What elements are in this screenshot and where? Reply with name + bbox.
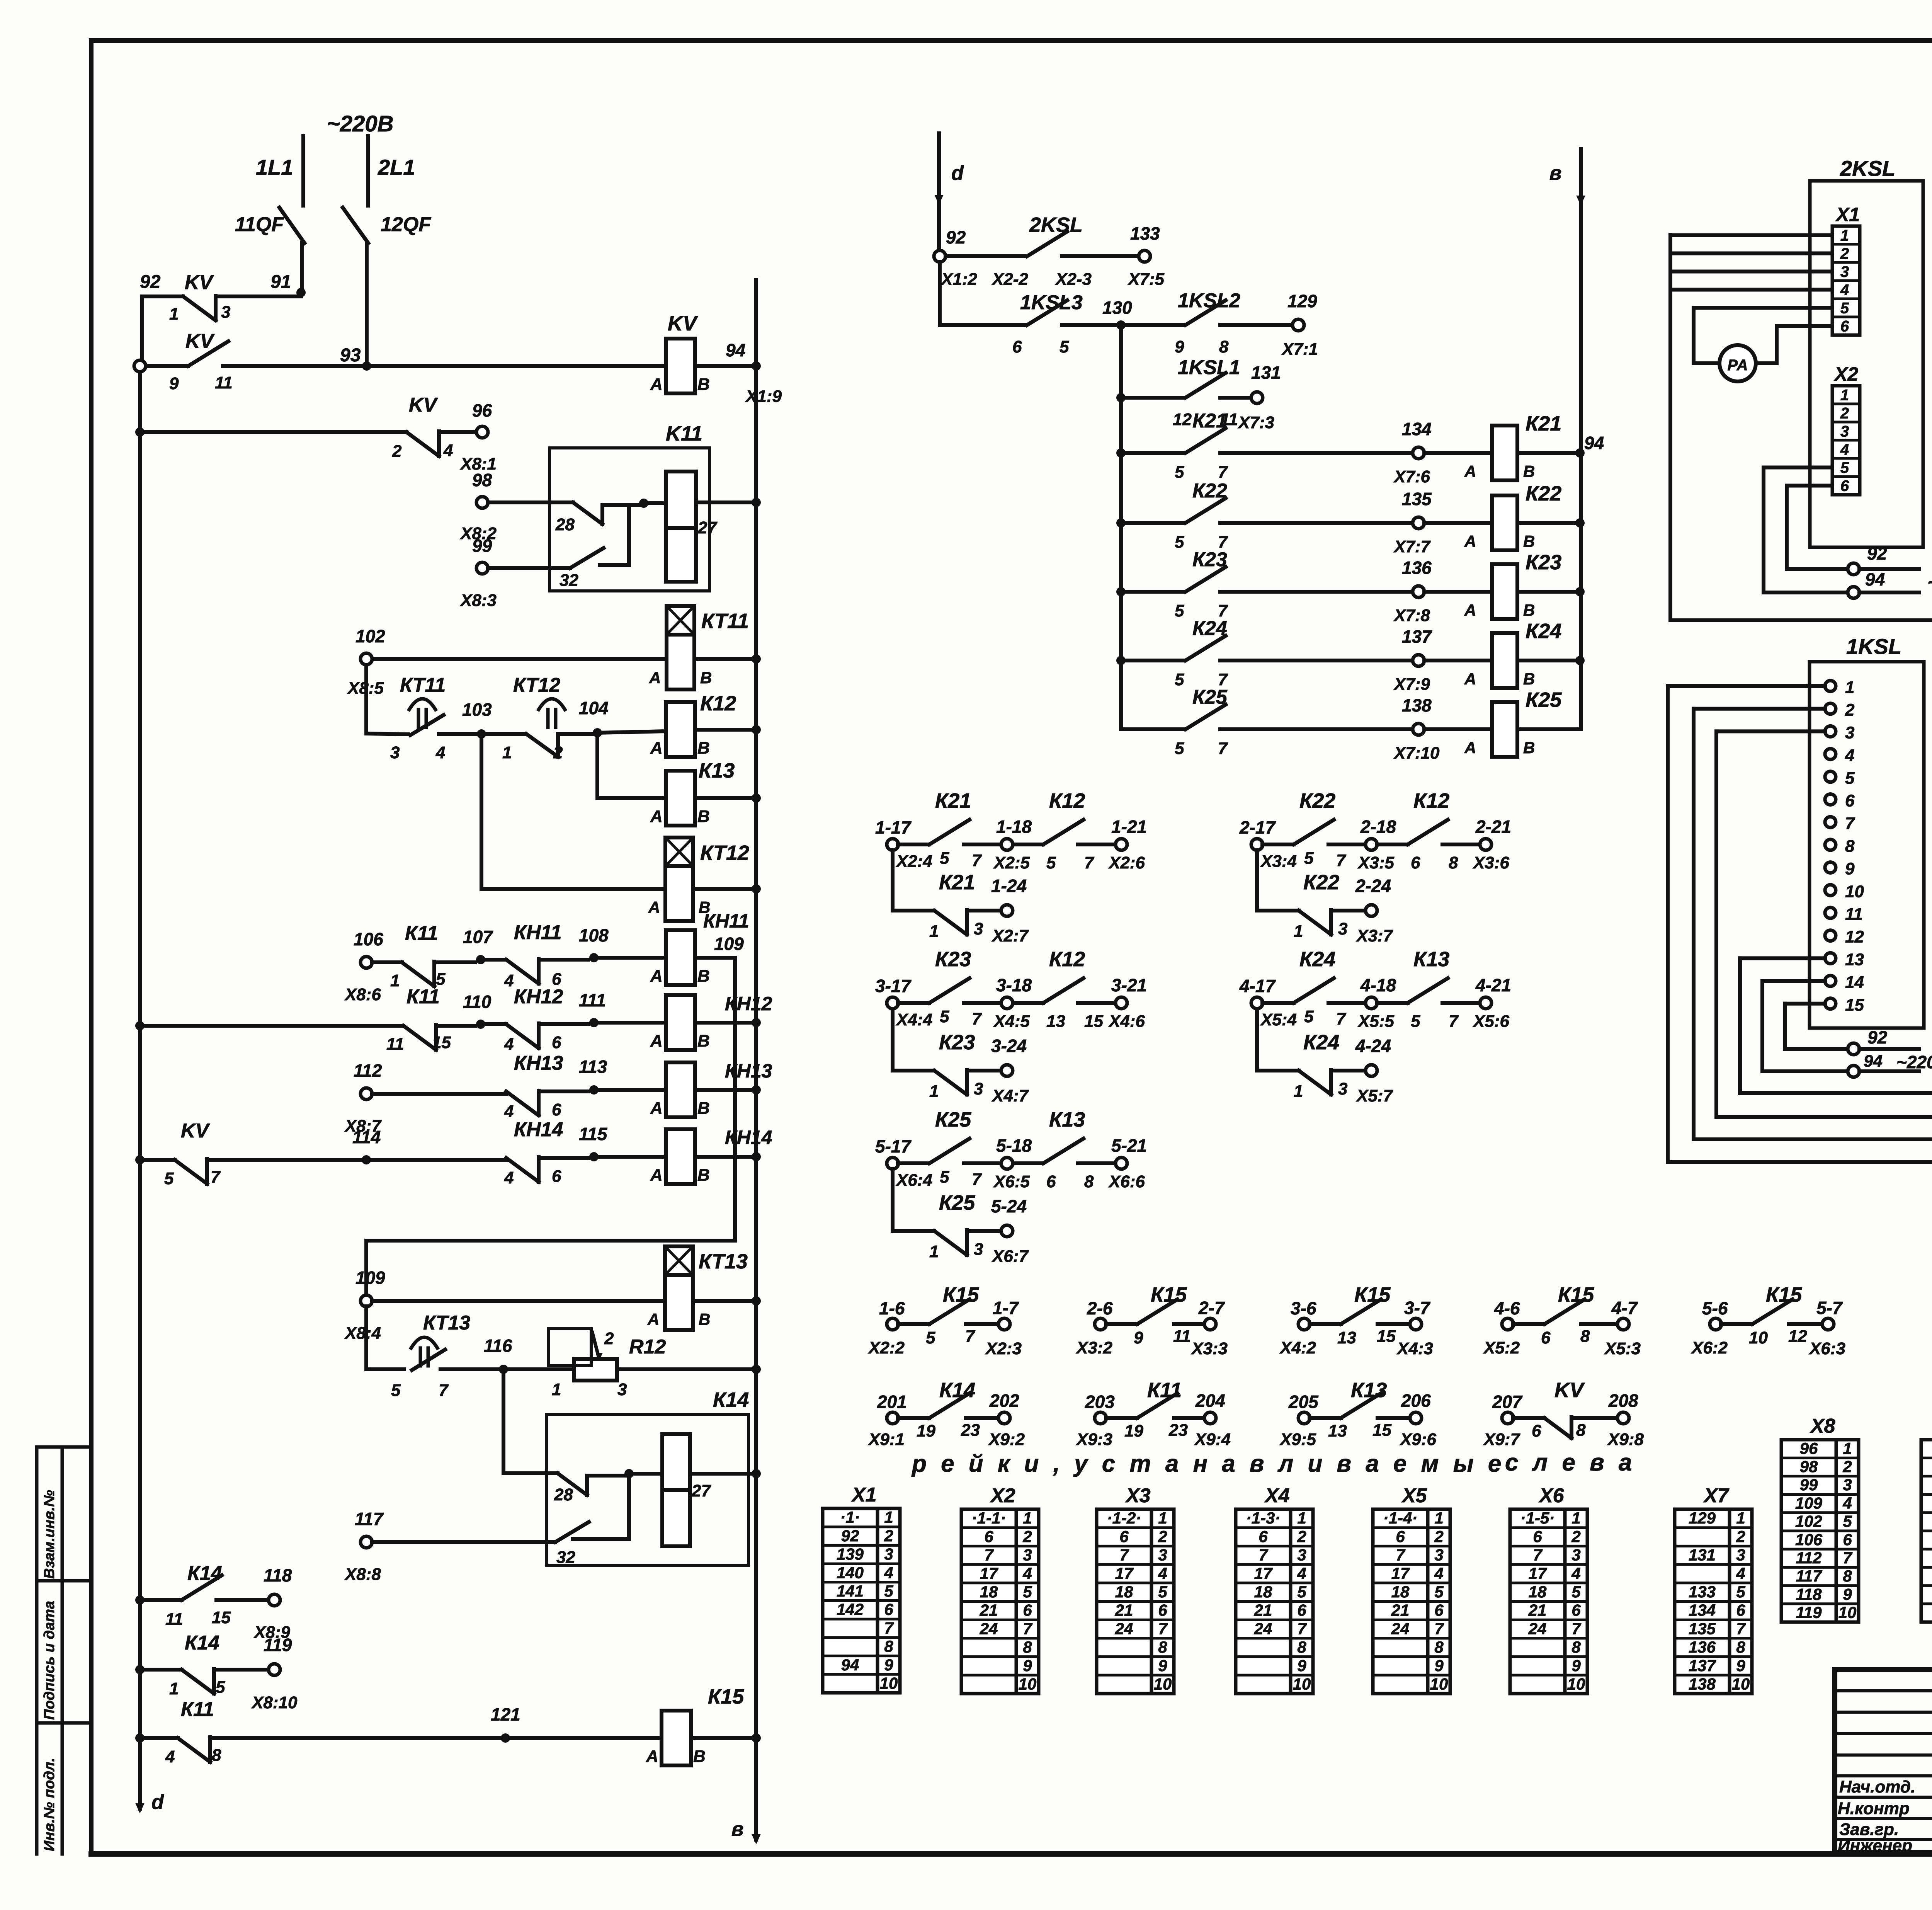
svg-text:К23: К23 bbox=[939, 1031, 975, 1054]
svg-text:32: 32 bbox=[556, 1548, 575, 1567]
svg-text:5: 5 bbox=[1845, 769, 1855, 788]
svg-text:6: 6 bbox=[1533, 1527, 1542, 1546]
svg-text:136: 136 bbox=[1402, 558, 1432, 578]
svg-text:96: 96 bbox=[1800, 1439, 1818, 1457]
svg-text:К13: К13 bbox=[699, 759, 735, 782]
svg-text:X3:7: X3:7 bbox=[1355, 926, 1393, 945]
svg-text:X8:10: X8:10 bbox=[251, 1693, 298, 1712]
svg-text:5: 5 bbox=[1411, 1012, 1420, 1031]
svg-text:К11: К11 bbox=[405, 922, 438, 945]
svg-text:KV: KV bbox=[1554, 1379, 1585, 1402]
svg-text:92: 92 bbox=[946, 227, 966, 247]
svg-text:6: 6 bbox=[1046, 1172, 1056, 1191]
svg-text:2-18: 2-18 bbox=[1360, 817, 1396, 837]
svg-text:137: 137 bbox=[1402, 626, 1432, 647]
svg-text:6: 6 bbox=[1571, 1601, 1581, 1619]
svg-text:111: 111 bbox=[579, 990, 606, 1010]
svg-text:15: 15 bbox=[212, 1608, 231, 1627]
svg-text:К14: К14 bbox=[713, 1388, 749, 1411]
svg-text:X9:8: X9:8 bbox=[1607, 1430, 1644, 1449]
svg-text:15: 15 bbox=[1377, 1327, 1396, 1346]
svg-text:7: 7 bbox=[984, 1546, 994, 1564]
svg-text:4: 4 bbox=[165, 1747, 175, 1766]
svg-text:В: В bbox=[697, 739, 710, 758]
svg-text:KV: KV bbox=[409, 394, 439, 416]
svg-text:7: 7 bbox=[1297, 1619, 1307, 1638]
svg-text:17: 17 bbox=[1391, 1564, 1410, 1582]
svg-text:21: 21 bbox=[1391, 1601, 1410, 1619]
svg-text:4-6: 4-6 bbox=[1494, 1298, 1520, 1318]
svg-text:К25: К25 bbox=[1192, 686, 1228, 708]
svg-text:6: 6 bbox=[1259, 1527, 1268, 1546]
svg-text:205: 205 bbox=[1288, 1392, 1319, 1412]
svg-text:А: А bbox=[650, 739, 663, 758]
svg-text:X7:9: X7:9 bbox=[1393, 675, 1430, 694]
svg-text:4: 4 bbox=[1571, 1564, 1580, 1582]
svg-text:7: 7 bbox=[211, 1168, 221, 1187]
svg-text:КН13: КН13 bbox=[725, 1060, 772, 1082]
svg-text:5: 5 bbox=[1304, 849, 1314, 868]
svg-text:10: 10 bbox=[1838, 1604, 1857, 1622]
svg-text:134: 134 bbox=[1402, 419, 1432, 439]
svg-text:112: 112 bbox=[1796, 1549, 1822, 1567]
svg-text:138: 138 bbox=[1689, 1675, 1716, 1693]
svg-text:1: 1 bbox=[1158, 1509, 1167, 1527]
svg-text:X7:6: X7:6 bbox=[1393, 467, 1430, 486]
svg-text:6: 6 bbox=[1532, 1421, 1541, 1440]
svg-text:4: 4 bbox=[1434, 1564, 1443, 1582]
svg-text:1: 1 bbox=[1294, 1082, 1303, 1101]
svg-text:4: 4 bbox=[1736, 1564, 1745, 1582]
svg-text:114: 114 bbox=[352, 1127, 381, 1147]
svg-text:1: 1 bbox=[929, 1082, 939, 1101]
svg-text:92: 92 bbox=[140, 272, 161, 292]
svg-text:110: 110 bbox=[463, 992, 492, 1012]
svg-text:d: d bbox=[951, 162, 964, 184]
svg-text:7: 7 bbox=[1843, 1549, 1852, 1567]
svg-text:7: 7 bbox=[1336, 1009, 1347, 1028]
svg-text:5: 5 bbox=[940, 849, 949, 868]
svg-text:17: 17 bbox=[980, 1564, 998, 1582]
svg-text:А: А bbox=[1464, 670, 1476, 688]
svg-text:119: 119 bbox=[1796, 1604, 1822, 1622]
svg-text:В: В bbox=[697, 1032, 710, 1050]
svg-text:19: 19 bbox=[1124, 1421, 1143, 1440]
svg-text:Нач.отд.: Нач.отд. bbox=[1839, 1777, 1915, 1796]
svg-text:9: 9 bbox=[1845, 860, 1855, 878]
svg-text:К13: К13 bbox=[1049, 1108, 1085, 1131]
svg-text:X6:7: X6:7 bbox=[991, 1247, 1029, 1266]
svg-text:КТ11: КТ11 bbox=[701, 609, 749, 633]
svg-text:107: 107 bbox=[463, 927, 493, 947]
svg-text:7: 7 bbox=[972, 1170, 982, 1189]
svg-text:94: 94 bbox=[726, 340, 745, 360]
svg-text:204: 204 bbox=[1195, 1391, 1225, 1411]
svg-text:1: 1 bbox=[929, 922, 939, 941]
svg-text:X6:6: X6:6 bbox=[1108, 1172, 1145, 1191]
svg-text:19: 19 bbox=[917, 1421, 935, 1440]
svg-text:X4: X4 bbox=[1264, 1484, 1290, 1507]
svg-text:В: В bbox=[1523, 739, 1535, 757]
svg-text:А: А bbox=[650, 375, 663, 394]
svg-text:X3:2: X3:2 bbox=[1075, 1338, 1112, 1357]
svg-text:1: 1 bbox=[1845, 678, 1854, 697]
svg-text:92: 92 bbox=[841, 1527, 859, 1545]
svg-text:В: В bbox=[697, 375, 710, 394]
svg-text:9: 9 bbox=[169, 374, 179, 393]
svg-text:X2:2: X2:2 bbox=[867, 1338, 905, 1357]
svg-text:5: 5 bbox=[940, 1168, 949, 1187]
svg-text:1KSL3: 1KSL3 bbox=[1020, 291, 1083, 314]
svg-text:5: 5 bbox=[1840, 300, 1849, 317]
svg-text:5: 5 bbox=[1175, 739, 1184, 758]
svg-text:·1-1·: ·1-1· bbox=[972, 1509, 1006, 1527]
svg-text:К23: К23 bbox=[1526, 551, 1561, 574]
svg-text:К11: К11 bbox=[181, 1698, 214, 1721]
svg-text:1KSL: 1KSL bbox=[1846, 634, 1901, 659]
svg-text:8: 8 bbox=[1297, 1638, 1306, 1656]
svg-text:24: 24 bbox=[980, 1619, 998, 1638]
svg-text:109: 109 bbox=[355, 1268, 385, 1288]
svg-text:К23: К23 bbox=[1192, 548, 1227, 571]
svg-text:15: 15 bbox=[432, 1033, 451, 1052]
svg-text:в: в bbox=[1549, 162, 1561, 184]
svg-text:13: 13 bbox=[1337, 1328, 1356, 1347]
svg-text:12QF: 12QF bbox=[381, 213, 431, 236]
svg-text:109: 109 bbox=[714, 934, 744, 954]
svg-text:К15: К15 bbox=[1354, 1283, 1391, 1306]
svg-text:К11: К11 bbox=[1147, 1379, 1182, 1402]
svg-text:10: 10 bbox=[1749, 1328, 1768, 1347]
svg-text:106: 106 bbox=[1795, 1530, 1823, 1549]
svg-text:5-17: 5-17 bbox=[875, 1136, 912, 1156]
svg-text:11: 11 bbox=[386, 1035, 404, 1054]
svg-text:2KSL: 2KSL bbox=[1029, 213, 1083, 237]
svg-text:КТ12: КТ12 bbox=[700, 841, 749, 865]
svg-text:X2: X2 bbox=[990, 1484, 1015, 1507]
svg-text:109: 109 bbox=[1795, 1494, 1823, 1512]
svg-text:6: 6 bbox=[1840, 478, 1849, 495]
svg-text:6: 6 bbox=[1434, 1601, 1444, 1619]
svg-text:1: 1 bbox=[552, 1380, 561, 1399]
svg-text:4-7: 4-7 bbox=[1611, 1298, 1638, 1318]
svg-text:142: 142 bbox=[837, 1600, 864, 1619]
svg-text:11: 11 bbox=[1173, 1327, 1191, 1346]
svg-text:5: 5 bbox=[1175, 533, 1184, 552]
svg-text:4: 4 bbox=[435, 743, 445, 762]
svg-text:3: 3 bbox=[884, 1545, 893, 1563]
svg-text:4: 4 bbox=[1297, 1564, 1306, 1582]
svg-text:3: 3 bbox=[1840, 264, 1849, 281]
svg-text:24: 24 bbox=[1528, 1619, 1547, 1638]
svg-text:KV: KV bbox=[185, 271, 214, 294]
svg-text:К25: К25 bbox=[935, 1108, 971, 1131]
svg-text:7: 7 bbox=[1218, 463, 1228, 482]
svg-text:7: 7 bbox=[972, 1009, 982, 1028]
svg-text:3-6: 3-6 bbox=[1291, 1298, 1316, 1318]
svg-text:17: 17 bbox=[1115, 1564, 1134, 1582]
svg-text:5: 5 bbox=[1434, 1583, 1444, 1601]
svg-text:5: 5 bbox=[1175, 601, 1184, 620]
svg-text:12: 12 bbox=[1173, 410, 1192, 429]
svg-text:1: 1 bbox=[169, 305, 179, 323]
svg-text:6: 6 bbox=[884, 1600, 893, 1619]
svg-text:208: 208 bbox=[1608, 1391, 1638, 1411]
svg-text:9: 9 bbox=[1023, 1656, 1032, 1675]
svg-text:К14: К14 bbox=[185, 1632, 219, 1654]
svg-text:X5:3: X5:3 bbox=[1604, 1339, 1641, 1358]
svg-text:113: 113 bbox=[579, 1057, 607, 1077]
svg-text:с л е в а: с л е в а bbox=[1505, 1449, 1636, 1476]
svg-text:·1-4·: ·1-4· bbox=[1383, 1509, 1418, 1527]
svg-text:В: В bbox=[1523, 462, 1535, 480]
svg-text:103: 103 bbox=[462, 700, 492, 720]
svg-text:6: 6 bbox=[1845, 792, 1855, 810]
svg-text:15: 15 bbox=[1845, 996, 1864, 1015]
svg-text:7: 7 bbox=[884, 1619, 894, 1637]
svg-text:94: 94 bbox=[1584, 433, 1604, 453]
svg-text:3: 3 bbox=[1736, 1546, 1745, 1564]
svg-text:10: 10 bbox=[1430, 1675, 1448, 1693]
svg-text:X2-2: X2-2 bbox=[991, 270, 1028, 289]
svg-text:4: 4 bbox=[1022, 1564, 1032, 1582]
svg-text:8: 8 bbox=[1158, 1638, 1167, 1656]
svg-text:К24: К24 bbox=[1303, 1031, 1339, 1054]
svg-text:X3:4: X3:4 bbox=[1260, 852, 1297, 871]
svg-text:X3: X3 bbox=[1125, 1484, 1151, 1507]
svg-text:5: 5 bbox=[1175, 463, 1184, 482]
svg-text:X7: X7 bbox=[1703, 1484, 1730, 1507]
svg-text:2-7: 2-7 bbox=[1198, 1298, 1225, 1318]
svg-text:3-17: 3-17 bbox=[875, 976, 912, 996]
svg-text:13: 13 bbox=[1845, 950, 1864, 969]
svg-text:4: 4 bbox=[1842, 1494, 1852, 1512]
svg-text:4: 4 bbox=[1840, 441, 1849, 458]
svg-text:5: 5 bbox=[940, 1007, 949, 1026]
svg-text:1-24: 1-24 bbox=[991, 876, 1027, 896]
svg-text:В: В bbox=[699, 1310, 710, 1328]
svg-text:А: А bbox=[649, 669, 661, 687]
svg-text:17: 17 bbox=[1254, 1564, 1273, 1582]
svg-text:5: 5 bbox=[391, 1381, 401, 1400]
svg-text:21: 21 bbox=[1254, 1601, 1272, 1619]
svg-text:1-18: 1-18 bbox=[996, 817, 1032, 837]
svg-text:8: 8 bbox=[1219, 337, 1229, 356]
svg-text:8: 8 bbox=[1084, 1172, 1094, 1191]
svg-text:X2: X2 bbox=[1833, 363, 1858, 385]
svg-text:X9:4: X9:4 bbox=[1194, 1430, 1231, 1449]
svg-text:3: 3 bbox=[974, 919, 983, 938]
svg-text:117: 117 bbox=[1796, 1567, 1823, 1585]
svg-text:2-6: 2-6 bbox=[1087, 1298, 1113, 1318]
svg-text:8: 8 bbox=[1580, 1327, 1590, 1346]
svg-text:5: 5 bbox=[164, 1169, 174, 1188]
svg-text:3-18: 3-18 bbox=[996, 975, 1032, 995]
svg-text:24: 24 bbox=[1115, 1619, 1133, 1638]
svg-text:К11: К11 bbox=[406, 986, 440, 1008]
svg-text:р е й к и , у с т а н а в л: р е й к и , у с т а н а в л и в а е м ы … bbox=[911, 1450, 1505, 1477]
svg-text:7: 7 bbox=[1396, 1546, 1405, 1564]
svg-text:~220В: ~220В bbox=[1927, 572, 1932, 594]
svg-text:135: 135 bbox=[1689, 1619, 1716, 1638]
svg-text:7: 7 bbox=[1449, 1012, 1459, 1031]
svg-text:2: 2 bbox=[1842, 1457, 1852, 1476]
svg-text:X4:4: X4:4 bbox=[895, 1010, 932, 1029]
svg-text:5: 5 bbox=[1297, 1583, 1306, 1601]
svg-text:3: 3 bbox=[390, 743, 400, 762]
svg-text:5-18: 5-18 bbox=[996, 1135, 1032, 1156]
svg-text:·1·: ·1· bbox=[840, 1508, 860, 1526]
svg-text:1: 1 bbox=[884, 1508, 893, 1526]
svg-text:7: 7 bbox=[1845, 814, 1855, 833]
svg-text:КН14: КН14 bbox=[725, 1127, 772, 1148]
svg-text:8: 8 bbox=[1571, 1638, 1581, 1656]
svg-text:6: 6 bbox=[1297, 1601, 1306, 1619]
svg-text:11: 11 bbox=[165, 1610, 183, 1629]
svg-text:5-6: 5-6 bbox=[1702, 1298, 1728, 1318]
svg-text:11: 11 bbox=[1845, 905, 1863, 924]
svg-text:2: 2 bbox=[553, 743, 563, 762]
svg-text:7: 7 bbox=[1084, 853, 1095, 872]
svg-text:К21: К21 bbox=[939, 871, 975, 894]
svg-text:141: 141 bbox=[837, 1582, 864, 1600]
svg-text:1: 1 bbox=[1297, 1509, 1306, 1527]
svg-text:13: 13 bbox=[1046, 1012, 1065, 1031]
svg-text:27: 27 bbox=[691, 1481, 711, 1500]
svg-text:7: 7 bbox=[1119, 1546, 1129, 1564]
svg-text:В: В bbox=[1523, 601, 1535, 619]
svg-text:6: 6 bbox=[552, 1033, 561, 1052]
svg-text:X6:5: X6:5 bbox=[993, 1172, 1030, 1191]
svg-text:X2:5: X2:5 bbox=[993, 853, 1030, 872]
svg-text:К24: К24 bbox=[1192, 617, 1227, 640]
svg-text:Взам.инв.№: Взам.инв.№ bbox=[41, 1490, 58, 1579]
svg-text:КН11: КН11 bbox=[703, 910, 749, 932]
svg-text:140: 140 bbox=[837, 1563, 864, 1581]
svg-text:КТ11: КТ11 bbox=[400, 674, 446, 696]
svg-text:5: 5 bbox=[1840, 460, 1849, 477]
svg-text:А: А bbox=[648, 898, 660, 916]
svg-text:X4:2: X4:2 bbox=[1279, 1338, 1316, 1357]
svg-text:КН11: КН11 bbox=[514, 921, 562, 944]
svg-text:X9:3: X9:3 bbox=[1075, 1430, 1112, 1449]
svg-text:12: 12 bbox=[1845, 928, 1864, 946]
svg-text:102: 102 bbox=[355, 626, 385, 646]
svg-text:X7:10: X7:10 bbox=[1393, 744, 1440, 763]
svg-text:KV: KV bbox=[181, 1120, 211, 1142]
svg-text:134: 134 bbox=[1689, 1601, 1716, 1619]
svg-text:6: 6 bbox=[1736, 1601, 1745, 1619]
svg-text:14: 14 bbox=[1845, 973, 1864, 992]
svg-text:138: 138 bbox=[1402, 695, 1432, 715]
svg-text:7: 7 bbox=[1571, 1619, 1581, 1638]
svg-text:129: 129 bbox=[1689, 1509, 1716, 1527]
svg-text:X3:5: X3:5 bbox=[1357, 853, 1394, 872]
svg-text:А: А bbox=[1464, 601, 1476, 619]
svg-text:X4:5: X4:5 bbox=[993, 1012, 1030, 1031]
svg-text:7: 7 bbox=[1336, 851, 1347, 870]
svg-text:5-24: 5-24 bbox=[991, 1196, 1027, 1216]
svg-text:К15: К15 bbox=[943, 1283, 979, 1306]
svg-text:X9:7: X9:7 bbox=[1483, 1430, 1520, 1449]
svg-text:17: 17 bbox=[1529, 1564, 1547, 1582]
svg-text:КН12: КН12 bbox=[725, 993, 772, 1015]
svg-text:9: 9 bbox=[1843, 1585, 1852, 1603]
svg-text:К12: К12 bbox=[1049, 789, 1085, 812]
svg-text:2L1: 2L1 bbox=[378, 155, 415, 179]
svg-text:10: 10 bbox=[1019, 1675, 1037, 1693]
svg-text:10: 10 bbox=[1567, 1675, 1585, 1693]
svg-text:4-17: 4-17 bbox=[1239, 976, 1276, 996]
svg-text:K11: K11 bbox=[666, 422, 702, 445]
svg-text:119: 119 bbox=[264, 1635, 292, 1655]
svg-text:207: 207 bbox=[1492, 1392, 1523, 1412]
svg-text:1: 1 bbox=[169, 1679, 179, 1698]
svg-text:8: 8 bbox=[1736, 1638, 1745, 1656]
svg-text:4: 4 bbox=[1845, 746, 1854, 765]
svg-text:X2:4: X2:4 bbox=[895, 852, 932, 871]
svg-text:8: 8 bbox=[1576, 1421, 1586, 1440]
svg-text:4: 4 bbox=[443, 441, 453, 460]
svg-text:К22: К22 bbox=[1303, 871, 1339, 894]
svg-text:5-21: 5-21 bbox=[1111, 1135, 1147, 1156]
svg-text:X7:5: X7:5 bbox=[1127, 270, 1164, 289]
svg-text:92: 92 bbox=[1867, 1027, 1888, 1047]
svg-text:В: В bbox=[700, 669, 712, 687]
svg-text:8: 8 bbox=[1449, 853, 1458, 872]
svg-text:6: 6 bbox=[1843, 1530, 1852, 1549]
svg-text:R12: R12 bbox=[629, 1336, 666, 1358]
svg-text:~220В: ~220В bbox=[1896, 1052, 1932, 1072]
svg-text:7: 7 bbox=[1259, 1546, 1268, 1564]
svg-text:А: А bbox=[1464, 739, 1476, 757]
svg-text:2-17: 2-17 bbox=[1239, 817, 1276, 838]
svg-text:18: 18 bbox=[980, 1583, 998, 1601]
svg-text:1: 1 bbox=[1294, 922, 1303, 941]
svg-text:12: 12 bbox=[1788, 1327, 1807, 1346]
svg-text:К15: К15 bbox=[708, 1685, 744, 1708]
svg-text:К12: К12 bbox=[1413, 789, 1449, 812]
svg-text:116: 116 bbox=[484, 1336, 512, 1356]
svg-text:X7:8: X7:8 bbox=[1393, 606, 1430, 625]
svg-text:d: d bbox=[151, 1791, 164, 1813]
svg-text:К21: К21 bbox=[1192, 410, 1227, 432]
svg-text:8: 8 bbox=[884, 1637, 893, 1655]
svg-text:КН14: КН14 bbox=[514, 1118, 563, 1141]
svg-text:6: 6 bbox=[552, 1167, 561, 1186]
svg-text:7: 7 bbox=[1434, 1619, 1444, 1638]
svg-text:8: 8 bbox=[1023, 1638, 1032, 1656]
svg-text:6: 6 bbox=[1411, 853, 1420, 872]
svg-text:23: 23 bbox=[961, 1421, 980, 1440]
svg-text:3: 3 bbox=[221, 303, 230, 322]
svg-text:137: 137 bbox=[1689, 1656, 1716, 1675]
svg-text:К15: К15 bbox=[1151, 1283, 1187, 1306]
svg-text:1L1: 1L1 bbox=[256, 155, 293, 179]
svg-text:X9:5: X9:5 bbox=[1279, 1430, 1316, 1449]
svg-text:2: 2 bbox=[884, 1527, 893, 1545]
svg-text:15: 15 bbox=[1084, 1012, 1103, 1031]
svg-text:3-21: 3-21 bbox=[1111, 975, 1147, 995]
svg-text:В: В bbox=[697, 1099, 710, 1118]
svg-text:3-24: 3-24 bbox=[991, 1036, 1027, 1056]
svg-text:4: 4 bbox=[884, 1563, 893, 1581]
svg-text:102: 102 bbox=[1795, 1512, 1822, 1530]
svg-text:В: В bbox=[1523, 532, 1535, 550]
svg-text:139: 139 bbox=[837, 1545, 864, 1563]
svg-text:К21: К21 bbox=[1526, 412, 1561, 435]
svg-text:6: 6 bbox=[1541, 1328, 1551, 1347]
